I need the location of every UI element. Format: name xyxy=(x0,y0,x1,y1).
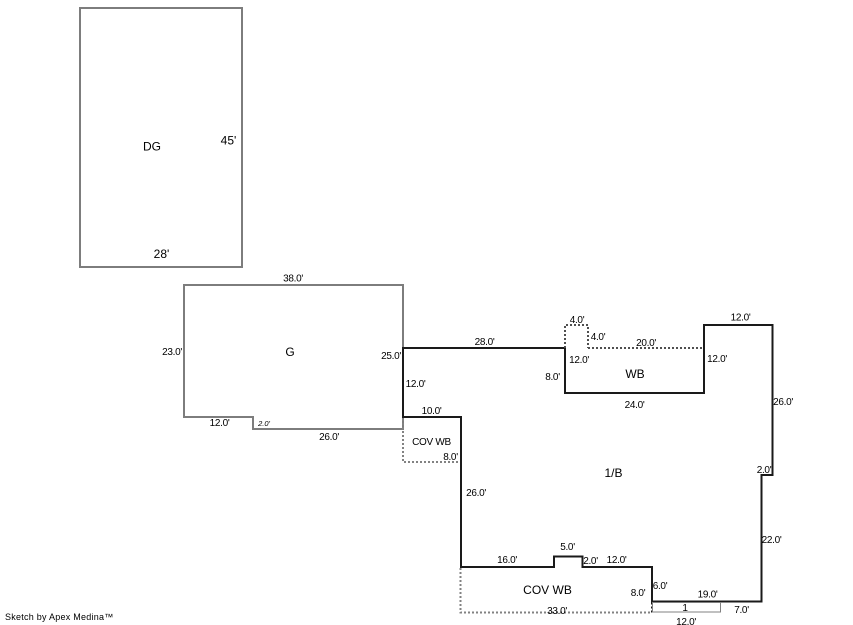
dashed 20' line (WB top boundary) xyxy=(588,347,703,349)
svg-text:8.0': 8.0' xyxy=(631,588,646,599)
svg-text:7.0': 7.0' xyxy=(734,605,749,616)
svg-text:24.0': 24.0' xyxy=(625,400,645,411)
svg-text:10.0': 10.0' xyxy=(422,406,442,417)
svg-text:4.0': 4.0' xyxy=(570,315,585,326)
svg-text:2.0': 2.0' xyxy=(257,419,270,428)
svg-text:26.0': 26.0' xyxy=(466,488,486,499)
svg-text:COV WB: COV WB xyxy=(412,437,451,448)
black dashed stub below COV WB right corner xyxy=(651,603,653,614)
svg-text:DG: DG xyxy=(143,140,161,154)
svg-text:12.0': 12.0' xyxy=(676,617,696,625)
svg-text:2.0': 2.0' xyxy=(583,556,598,567)
svg-text:28': 28' xyxy=(154,247,170,261)
upper COV WB dashed boundary (left + bottom) xyxy=(403,419,460,462)
svg-text:1: 1 xyxy=(682,603,688,614)
dashed 4x4 box above WB left corner xyxy=(565,325,588,348)
svg-text:12.0': 12.0' xyxy=(731,313,751,324)
lower COV WB dashed boundary (left + bottom) xyxy=(461,568,652,613)
svg-text:23.0': 23.0' xyxy=(162,347,182,358)
svg-text:12.0': 12.0' xyxy=(607,555,627,566)
svg-text:12.0': 12.0' xyxy=(569,355,589,366)
svg-text:2.0': 2.0' xyxy=(757,465,772,476)
svg-text:G: G xyxy=(285,345,294,359)
svg-text:8.0': 8.0' xyxy=(545,372,560,383)
svg-text:28.0': 28.0' xyxy=(475,337,495,348)
svg-text:4.0': 4.0' xyxy=(591,332,606,343)
svg-text:8.0': 8.0' xyxy=(443,452,458,463)
svg-text:12.0': 12.0' xyxy=(210,418,230,429)
svg-text:6.0': 6.0' xyxy=(653,581,668,592)
svg-text:19.0': 19.0' xyxy=(698,590,718,601)
svg-text:25.0': 25.0' xyxy=(381,351,401,362)
svg-text:1/B: 1/B xyxy=(604,466,622,480)
area G outline (garage polygon, gray) xyxy=(184,285,403,429)
svg-text:26.0': 26.0' xyxy=(319,432,339,443)
svg-text:26.0': 26.0' xyxy=(773,397,793,408)
svg-text:12.0': 12.0' xyxy=(406,379,426,390)
svg-text:Sketch by Apex Medina™: Sketch by Apex Medina™ xyxy=(5,612,114,622)
svg-text:COV WB: COV WB xyxy=(523,583,572,597)
svg-text:12.0': 12.0' xyxy=(707,354,727,365)
gray strip area labeled 1 xyxy=(653,603,721,613)
svg-text:5.0': 5.0' xyxy=(560,542,575,553)
main black outline: 1/B with WB wrap (28' link, WB, right wing, bottom) xyxy=(403,325,773,602)
svg-text:38.0': 38.0' xyxy=(283,274,303,285)
area DG outline (detached garage rectangle) xyxy=(80,8,242,267)
svg-text:33.0': 33.0' xyxy=(547,606,567,617)
svg-text:20.0': 20.0' xyxy=(636,338,656,349)
svg-text:45': 45' xyxy=(221,134,237,148)
svg-text:22.0': 22.0' xyxy=(762,535,782,546)
svg-text:WB: WB xyxy=(625,367,644,381)
svg-text:16.0': 16.0' xyxy=(497,555,517,566)
